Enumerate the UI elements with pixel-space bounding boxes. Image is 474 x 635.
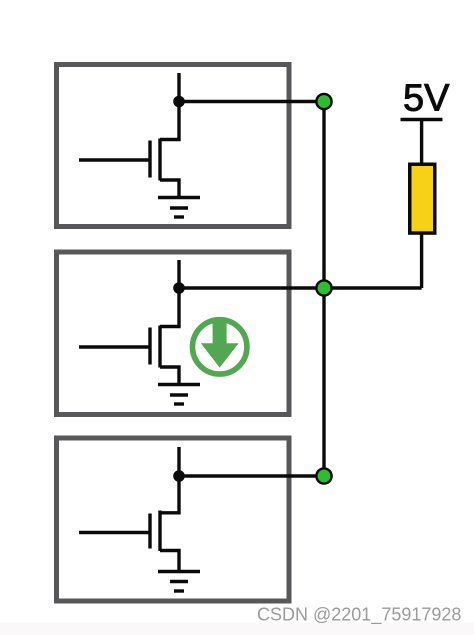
wire (node 2 to resistor column) [324,286,422,289]
transistor Q3 [79,447,179,571]
ground (box 1) [158,198,200,218]
wire (box 2 drain to bus) [179,286,324,289]
enclosure box 3 [57,438,290,601]
wire (box 3 drain to bus) [179,474,324,477]
wire (resistor bottom riser) [420,233,423,288]
node 3 (bus junction bottom) [316,468,331,483]
bottom strip [0,623,474,635]
ground (box 3) [158,572,200,592]
wire (5V bar to resistor top) [420,120,423,165]
ground (box 2) [158,385,200,405]
svg-text:5V: 5V [403,78,450,120]
node 2 (bus junction middle) [316,280,331,295]
enclosure box 2 [57,252,290,415]
power label 5V [403,78,450,120]
junction dot (box 2 drain) [173,282,185,294]
enclosure box 1 [57,65,290,227]
power rail 5V bar [401,118,443,121]
junction dot (box 3 drain) [173,470,185,482]
svg-text:CSDN @2201_75917928: CSDN @2201_75917928 [257,605,461,626]
junction dot (box 1 drain) [173,96,185,108]
node 1 (bus junction top) [316,94,331,109]
resistor R1 (pull-up) [410,164,435,233]
wire (box 1 drain to bus) [179,100,324,103]
watermark [257,605,461,626]
wire (vertical bus) [322,102,325,477]
transistor Q2 [79,260,179,384]
current direction icon (green circled down-arrow) [193,320,247,374]
transistor Q1 [79,73,179,197]
